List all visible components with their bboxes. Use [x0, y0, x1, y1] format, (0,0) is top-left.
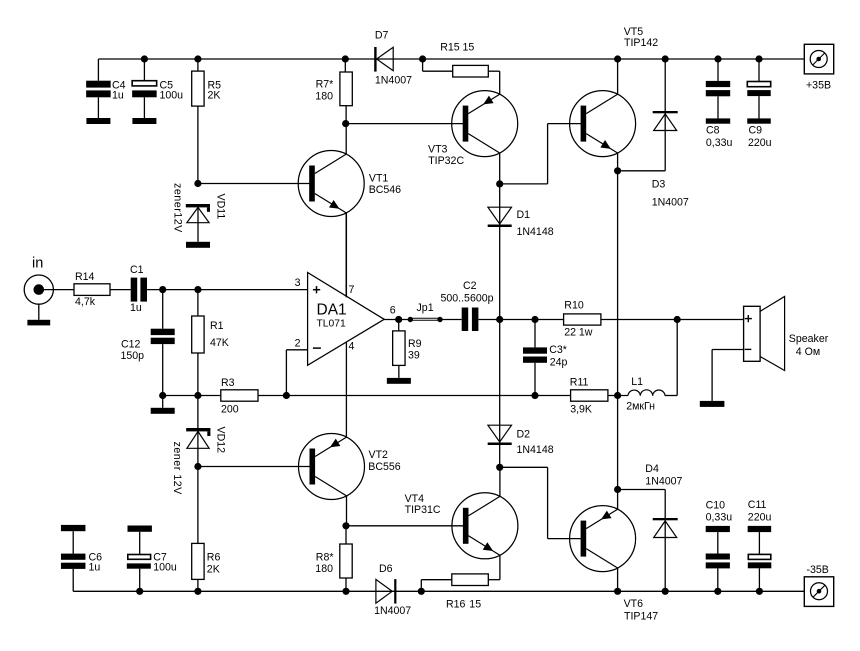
svg-text:TIP142: TIP142 — [624, 37, 658, 49]
svg-text:D1: D1 — [517, 209, 531, 221]
svg-text:R14: R14 — [75, 271, 95, 283]
svg-text:180: 180 — [315, 563, 333, 575]
svg-text:2: 2 — [295, 338, 301, 350]
svg-text:22 1w: 22 1w — [564, 326, 593, 338]
svg-text:zener12V: zener12V — [172, 183, 184, 233]
svg-text:2K: 2K — [208, 89, 221, 101]
svg-text:1u: 1u — [130, 302, 142, 314]
svg-text:BC546: BC546 — [369, 184, 401, 196]
svg-text:4: 4 — [349, 341, 355, 353]
svg-text:R1: R1 — [210, 320, 224, 332]
svg-text:C3*: C3* — [549, 344, 567, 356]
svg-text:1N4007: 1N4007 — [375, 75, 412, 87]
svg-text:R6: R6 — [207, 552, 221, 564]
svg-text:500..5600p: 500..5600p — [441, 293, 494, 305]
svg-text:VT2: VT2 — [369, 449, 389, 461]
svg-text:150p: 150p — [121, 350, 145, 362]
svg-text:C9: C9 — [749, 124, 763, 136]
svg-text:1u: 1u — [112, 89, 124, 101]
svg-text:C1: C1 — [130, 264, 144, 276]
svg-text:0,33u: 0,33u — [706, 511, 733, 523]
svg-text:R16: R16 — [446, 599, 466, 611]
svg-text:C10: C10 — [706, 499, 726, 511]
svg-text:TIP31C: TIP31C — [405, 504, 441, 516]
svg-text:24p: 24p — [550, 356, 568, 368]
svg-text:C8: C8 — [706, 124, 720, 136]
svg-text:DA1: DA1 — [317, 302, 347, 319]
svg-text:TIP32C: TIP32C — [428, 155, 464, 167]
svg-text:R15: R15 — [440, 42, 460, 54]
svg-text:+35B: +35B — [806, 79, 831, 91]
svg-text:C2: C2 — [463, 280, 477, 292]
svg-text:39: 39 — [408, 350, 420, 362]
svg-text:1N4007: 1N4007 — [374, 605, 411, 617]
svg-text:15: 15 — [469, 599, 481, 611]
svg-text:R11: R11 — [570, 377, 589, 389]
svg-text:4,7k: 4,7k — [75, 296, 96, 308]
svg-text:D7: D7 — [375, 30, 389, 42]
svg-text:R3: R3 — [221, 377, 235, 389]
svg-text:0,33u: 0,33u — [706, 137, 733, 149]
svg-text:VD11: VD11 — [215, 194, 227, 220]
svg-text:4 Ом: 4 Ом — [796, 346, 820, 358]
svg-text:Jp1: Jp1 — [417, 302, 434, 314]
svg-text:Speaker: Speaker — [789, 333, 829, 345]
svg-text:220u: 220u — [748, 511, 772, 523]
svg-text:3,9K: 3,9K — [570, 404, 592, 416]
svg-text:6: 6 — [390, 304, 396, 316]
svg-text:47K: 47K — [210, 337, 229, 349]
svg-text:L1: L1 — [631, 376, 643, 388]
svg-text:7: 7 — [349, 284, 355, 296]
svg-text:C11: C11 — [748, 499, 767, 511]
svg-text:100u: 100u — [160, 89, 184, 101]
svg-text:200: 200 — [221, 404, 239, 416]
svg-text:3: 3 — [295, 277, 301, 289]
svg-text:2мкГн: 2мкГн — [626, 401, 655, 413]
svg-text:R10: R10 — [564, 300, 584, 312]
svg-text:BC556: BC556 — [368, 461, 400, 473]
svg-text:2K: 2K — [207, 564, 220, 576]
svg-text:1u: 1u — [89, 561, 101, 573]
svg-text:15: 15 — [463, 42, 475, 54]
svg-text:zener 12V: zener 12V — [171, 442, 183, 496]
svg-text:180: 180 — [315, 91, 333, 103]
svg-text:1N4007: 1N4007 — [645, 476, 682, 488]
svg-text:D4: D4 — [645, 463, 659, 475]
svg-text:TIP147: TIP147 — [624, 610, 658, 622]
svg-text:R7*: R7* — [316, 79, 334, 91]
svg-text:in: in — [32, 256, 43, 272]
svg-text:VT3: VT3 — [428, 144, 448, 156]
svg-text:C12: C12 — [121, 339, 141, 351]
svg-text:VT1: VT1 — [369, 172, 389, 184]
svg-text:-35B: -35B — [807, 564, 829, 576]
svg-text:R9: R9 — [408, 338, 422, 350]
svg-text:R8*: R8* — [316, 552, 334, 564]
svg-text:D3: D3 — [652, 178, 666, 190]
svg-text:220u: 220u — [748, 137, 772, 149]
svg-text:TL071: TL071 — [317, 319, 346, 330]
svg-text:D6: D6 — [379, 563, 393, 575]
svg-text:VT6: VT6 — [624, 598, 644, 610]
svg-text:D2: D2 — [517, 428, 531, 440]
svg-text:1N4007: 1N4007 — [652, 197, 689, 209]
svg-text:1N4148: 1N4148 — [517, 226, 554, 238]
svg-text:100u: 100u — [153, 561, 177, 573]
svg-text:VD12: VD12 — [215, 427, 227, 454]
svg-text:1N4148: 1N4148 — [517, 444, 554, 456]
